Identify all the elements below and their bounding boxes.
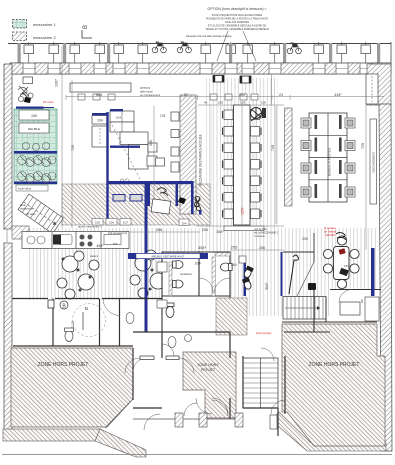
svg-text:350: 350 [149,140,153,146]
svg-text:mezzanine 1: mezzanine 1 [33,22,56,27]
svg-text:POSSIBILITE DE FAIRE DE LA POS: POSSIBILITE DE FAIRE DE LA POSTE A LA TA… [206,18,269,21]
svg-text:casiers: casiers [90,254,99,258]
svg-text:206: 206 [259,246,265,250]
svg-text:204¹: 204¹ [195,262,203,266]
svg-text:402: 402 [239,93,245,97]
svg-text:ci dessus: ci dessus [254,234,266,238]
svg-text:table haute: table haute [140,90,153,94]
svg-text:205: 205 [202,228,208,232]
svg-text:104: 104 [181,222,186,226]
svg-text:266: 266 [156,228,162,232]
svg-text:ET OU AJOUTE L'ENSEMBLE DEROUL: ET OU AJOUTE L'ENSEMBLE DEROULE AU BORD … [208,25,266,28]
svg-text:354¹: 354¹ [198,245,207,250]
svg-text:205: 205 [302,237,308,241]
svg-text:864: 864 [96,93,102,97]
svg-text:ZONE HORS: ZONE HORS [197,363,219,367]
svg-text:mécanicien: mécanicien [20,207,34,211]
svg-text:mezzanine 2: mezzanine 2 [33,35,56,40]
svg-text:local: local [20,203,26,207]
svg-text:de La MEZZANINE 2: de La MEZZANINE 2 [254,231,279,235]
svg-text:local vélos: local vélos [18,187,32,191]
svg-text:150: 150 [31,114,37,118]
svg-text:104: 104 [97,119,103,123]
svg-text:57: 57 [184,93,188,97]
svg-text:103 repositionné: 103 repositionné [108,231,128,235]
svg-text:105: 105 [95,221,100,225]
svg-text:178: 178 [160,114,166,118]
svg-text:140¹: 140¹ [231,263,239,267]
svg-text:TRAVAIL ET TOUTFIX L'ENSEMBLE: TRAVAIL ET TOUTFIX L'ENSEMBLE MOBILIER E… [205,28,269,31]
svg-text:FACE AUX FENETRES: FACE AUX FENETRES [225,21,250,24]
svg-text:24: 24 [279,93,283,97]
svg-text:en remplacement: en remplacement [140,93,160,97]
svg-text:local ménage: local ménage [256,331,272,335]
svg-text:25 vélos: 25 vélos [26,212,36,216]
svg-text:154: 154 [344,264,349,268]
svg-text:banquette bois à la table iden: banquette bois à la table identique inté… [186,35,232,38]
svg-text:2,12: 2,12 [71,321,75,328]
svg-text:720: 720 [71,145,75,151]
svg-text:40: 40 [204,101,208,105]
svg-text:ZONE HORS PROJET: ZONE HORS PROJET [38,362,89,368]
svg-text:MEUBLE VESTIAIRE HAUT: MEUBLE VESTIAIRE HAUT [152,255,185,259]
svg-text:749: 749 [271,145,275,151]
svg-text:106: 106 [109,221,114,225]
svg-text:OPTION: OPTION [140,86,150,90]
svg-text:729: 729 [361,143,365,149]
svg-text:MEUBLE: MEUBLE [28,127,40,131]
svg-text:434¹: 434¹ [334,93,342,97]
svg-text:504¹: 504¹ [265,282,269,290]
svg-text:B: B [83,25,89,29]
svg-text:1397: 1397 [55,79,59,87]
svg-text:BUREAU 8 POSTES: BUREAU 8 POSTES [328,148,332,176]
svg-text:104: 104 [116,116,121,120]
svg-text:107: 107 [123,221,128,225]
svg-text:1257: 1257 [241,207,245,215]
svg-text:B: B [85,306,88,311]
svg-text:452¹: 452¹ [96,244,104,248]
svg-text:20¹: 20¹ [360,299,364,303]
svg-text:voir le Plan: voir le Plan [254,227,267,231]
svg-text:POUR CHAQUE POSTE SUR LES DEUX: POUR CHAQUE POSTE SUR LES DEUX BAIES [212,14,263,17]
svg-text:MEZZANINE VESTIAIRES ACCUEIL: MEZZANINE VESTIAIRES ACCUEIL [199,133,203,186]
svg-text:OPTION (hors descriptif ci des: OPTION (hors descriptif ci dessous) = [207,7,266,11]
svg-text:100: 100 [240,101,245,105]
svg-text:100: 100 [261,101,266,105]
svg-text:100: 100 [218,101,223,105]
svg-text:sanitaires: sanitaires [180,272,193,276]
svg-text:four: four [113,242,118,246]
svg-text:PROJET: PROJET [201,368,216,372]
svg-text:205: 205 [231,245,238,250]
svg-text:140x80: 140x80 [325,233,335,237]
svg-text:354¹: 354¹ [216,230,224,234]
svg-text:25 vélos: 25 vélos [43,100,54,104]
svg-text:ZONE HORS PROJET: ZONE HORS PROJET [309,362,360,368]
svg-text:DEGAGEMENT: DEGAGEMENT [372,151,376,173]
